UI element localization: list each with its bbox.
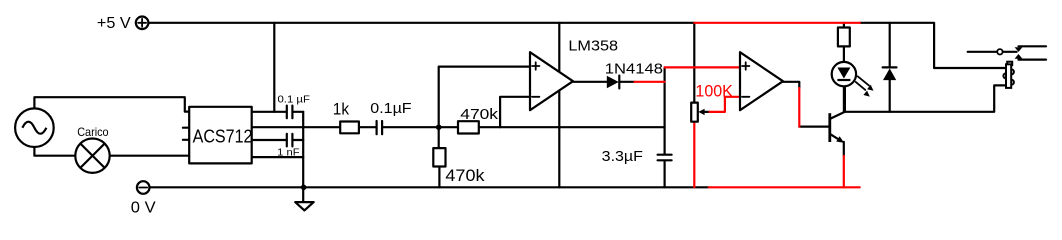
svg-text:0.1 µF: 0.1 µF [278,94,310,106]
svg-text:100K: 100K [695,81,733,100]
svg-text:1 nF: 1 nF [277,147,299,159]
svg-text:ACS712: ACS712 [193,126,253,146]
svg-text:+5 V: +5 V [97,15,131,32]
svg-text:470k: 470k [460,107,499,123]
svg-text:3.3µF: 3.3µF [602,149,643,165]
svg-text:1N4148: 1N4148 [605,61,663,78]
svg-text:LM358: LM358 [568,38,618,55]
svg-text:1k: 1k [333,99,350,118]
svg-text:470k: 470k [445,166,485,185]
svg-text:Carico: Carico [77,125,109,139]
svg-text:0.1µF: 0.1µF [370,101,411,117]
svg-text:0 V: 0 V [131,200,156,217]
